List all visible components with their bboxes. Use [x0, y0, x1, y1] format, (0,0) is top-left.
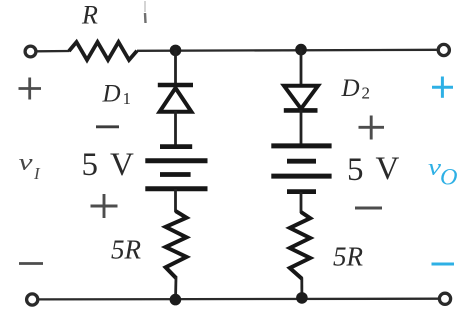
- node bottom-right junction: [296, 292, 308, 304]
- svg-text:2: 2: [362, 84, 371, 103]
- wire battery2 to 5R right: [300, 192, 303, 213]
- svg-text:5: 5: [82, 147, 99, 183]
- svg-text:O: O: [440, 165, 458, 190]
- wire node A to D1: [174, 50, 177, 84]
- terminal bottom-right: [439, 293, 450, 304]
- wire 5R left to bottom rail: [174, 277, 177, 300]
- scan artifact mark top: [144, 1, 147, 23]
- resistor 5R left zigzag: [166, 211, 187, 278]
- terminal bottom-left: [27, 294, 38, 305]
- svg-text:V: V: [376, 151, 400, 187]
- label vI: [19, 150, 42, 183]
- terminal top-right: [438, 44, 449, 55]
- svg-text:D: D: [341, 75, 360, 102]
- node top-right junction: [295, 44, 307, 56]
- wire D2 to battery2: [300, 110, 303, 146]
- svg-text:5R: 5R: [111, 235, 142, 265]
- wire top rail: [37, 50, 438, 52]
- svg-text:v: v: [19, 150, 33, 176]
- wire bottom rail: [39, 298, 439, 301]
- label - input polarity: [19, 262, 43, 265]
- wire D1 to battery1: [174, 111, 177, 145]
- label vO (cyan): [428, 155, 458, 190]
- svg-text:R: R: [81, 1, 98, 30]
- label - battery1 top polarity: [96, 125, 119, 128]
- diode D2 triangle: [284, 86, 318, 109]
- node bottom-left junction: [170, 294, 182, 306]
- label + battery1 bottom polarity: [91, 194, 118, 218]
- svg-text:1: 1: [123, 89, 132, 108]
- resistor 5R right zigzag: [290, 212, 310, 279]
- resistor R: [69, 42, 137, 60]
- label D1: [102, 81, 132, 109]
- wire node B to D2: [300, 49, 303, 86]
- wire battery1 to 5R left: [174, 189, 177, 212]
- label + battery2 top polarity: [359, 116, 385, 140]
- diode D1 triangle: [160, 88, 192, 112]
- label - battery2 bottom polarity: [355, 207, 382, 210]
- node A top-left junction: [170, 45, 182, 57]
- svg-text:5R: 5R: [333, 242, 364, 272]
- diode D2 cathode bar: [284, 108, 318, 113]
- label + output polarity (cyan): [432, 77, 453, 98]
- svg-text:V: V: [110, 147, 134, 183]
- battery B1 5V (short,long,short,long): [145, 147, 207, 189]
- wire 5R right to bottom rail: [300, 278, 303, 299]
- label D2: [341, 75, 371, 103]
- svg-text:D: D: [102, 81, 121, 108]
- terminal top-left: [25, 46, 36, 57]
- label - output polarity (cyan): [432, 263, 455, 266]
- label + input polarity: [19, 78, 42, 100]
- battery B2 5V (long,short,long,short): [271, 146, 331, 192]
- svg-text:5: 5: [347, 152, 364, 188]
- diode D1 cathode bar: [158, 83, 193, 88]
